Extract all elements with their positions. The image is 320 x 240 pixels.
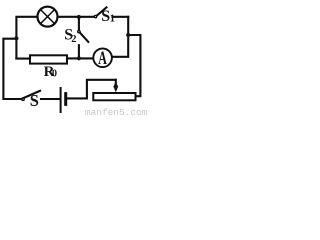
svg-text:S: S: [30, 91, 39, 110]
svg-text:2: 2: [71, 34, 76, 45]
svg-text:A: A: [98, 48, 107, 68]
svg-text:1: 1: [110, 14, 115, 25]
svg-text:manfen5.com: manfen5.com: [85, 107, 148, 118]
svg-text:0: 0: [52, 68, 57, 79]
